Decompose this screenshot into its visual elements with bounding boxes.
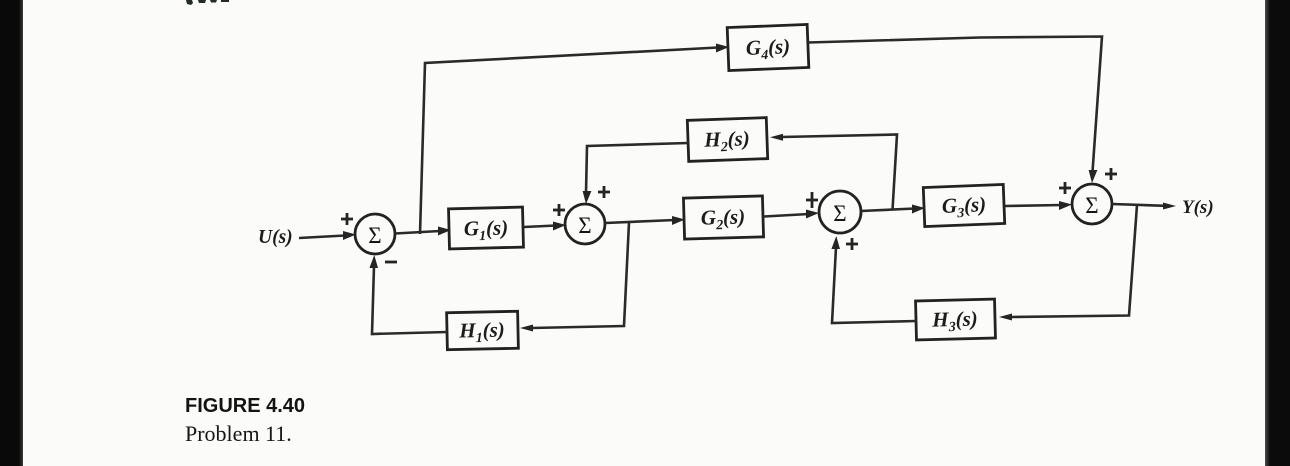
svg-text:Σ: Σ (1085, 193, 1098, 218)
summing junction S3 (819, 191, 861, 233)
block H1 (447, 311, 519, 349)
cropped page header text (186, 0, 229, 5)
svg-text:FIGURE 4.40: FIGURE 4.40 (185, 395, 305, 417)
summing junction S2 (565, 204, 605, 244)
block G1 (449, 207, 524, 249)
wire G3 to S4 (1005, 201, 1072, 210)
plus sign at S2 input (553, 204, 565, 216)
wire takeoff to H3 (999, 205, 1137, 321)
plus sign at S3 bottom input (846, 238, 858, 250)
block H2 (687, 118, 767, 162)
svg-text:Y(s): Y(s) (1182, 197, 1214, 218)
wire S3 to G3 (861, 205, 925, 214)
wire S2 to G2 (605, 216, 685, 225)
wire takeoff to H1 (520, 223, 629, 332)
block G3 (923, 184, 1004, 226)
wire H2 to S2 (583, 143, 688, 204)
plus sign at S2 top input (598, 186, 610, 198)
svg-text:Σ: Σ (368, 223, 381, 248)
summing junction S1 (355, 214, 395, 254)
svg-text:Σ: Σ (578, 213, 591, 238)
summing junction S4 (1072, 184, 1112, 224)
minus sign at S1 feedback input (385, 261, 397, 264)
wire S1 to G1 (395, 227, 451, 236)
wire input to summer S1 (299, 231, 356, 240)
block H3 (916, 299, 996, 340)
wire S4 to output (1112, 203, 1176, 210)
wire G2 to S3 (764, 210, 819, 219)
block G4 (727, 24, 809, 70)
wire G4 to S4 (808, 37, 1102, 184)
plus sign at S4 input (1059, 182, 1071, 194)
wire takeoff to G4 (420, 44, 729, 235)
svg-text:Problem 11.: Problem 11. (185, 421, 292, 446)
wire takeoff to H2 (770, 134, 897, 210)
svg-text:Σ: Σ (833, 201, 846, 226)
plus sign at S3 input (806, 192, 818, 208)
svg-text:U(s): U(s) (258, 227, 293, 248)
wire G1 to S2 (524, 222, 566, 231)
wire H1 to S1 (369, 255, 447, 334)
wire H3 to S3 (831, 236, 916, 323)
plus sign at S4 top input (1105, 168, 1117, 180)
block G2 (683, 196, 763, 239)
plus sign at S1 input (341, 213, 353, 225)
